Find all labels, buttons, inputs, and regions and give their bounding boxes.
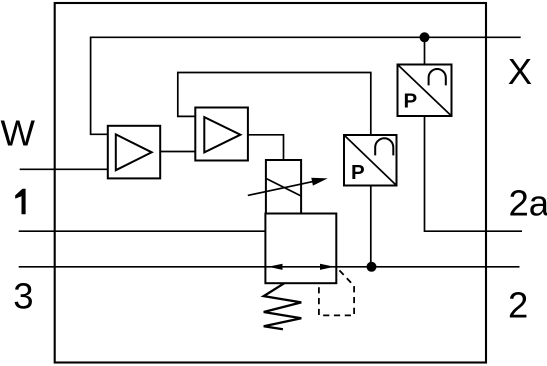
wire port 1 input: [19, 230, 266, 232]
wire X line with setpoint branch to amplifier A1: [91, 37, 521, 134]
pressure sensor B2 diagonal: [344, 135, 397, 186]
svg-text:2a: 2a: [509, 183, 547, 224]
port label 1: [15, 189, 25, 215]
pressure sensor B1 membrane arc: [429, 69, 446, 85]
svg-text:W: W: [1, 113, 36, 154]
svg-text:3: 3: [13, 276, 33, 317]
wire A1 output to A2 input: [160, 151, 195, 153]
amplifier A2 box: [195, 108, 248, 161]
junction dot on X line: [420, 32, 430, 42]
wire sensor B1 to port 2a: [425, 116, 523, 231]
amplifier A1 box: [108, 126, 160, 179]
wire flow line port 3 to port 2: [19, 266, 520, 268]
flow arrowhead left: [268, 264, 283, 270]
pressure sensor B1 diagonal: [398, 65, 452, 117]
pressure sensor B1 box: [398, 65, 452, 117]
wire sensor B2 to output line junction: [370, 186, 372, 267]
pressure sensor B2 membrane arc: [375, 138, 393, 155]
svg-text:X: X: [508, 51, 532, 92]
pressure sensor B2 box: [344, 135, 397, 186]
spring: [264, 283, 302, 329]
svg-text:2: 2: [508, 285, 528, 326]
wire port W input: [20, 168, 108, 170]
flow arrowhead right: [320, 264, 335, 270]
proportional solenoid block: [266, 160, 301, 214]
dashed pilot line box: [319, 267, 354, 315]
valve body: [265, 214, 336, 284]
wire junction to pressure sensor B1: [424, 37, 426, 64]
enclosure border: [55, 3, 486, 363]
amplifier A2 triangle: [204, 117, 240, 152]
svg-text:P: P: [404, 90, 418, 113]
amplifier A1 triangle: [116, 134, 152, 170]
wire A2 output to proportional solenoid: [248, 135, 284, 160]
junction dot on flow line: [367, 262, 377, 272]
wire pressure feedback from sensor B2 to A2 input: [178, 73, 371, 136]
solenoid cross diagonal: [266, 178, 301, 196]
svg-text:P: P: [351, 161, 365, 184]
solenoid adjustment arrow: [248, 181, 314, 195]
